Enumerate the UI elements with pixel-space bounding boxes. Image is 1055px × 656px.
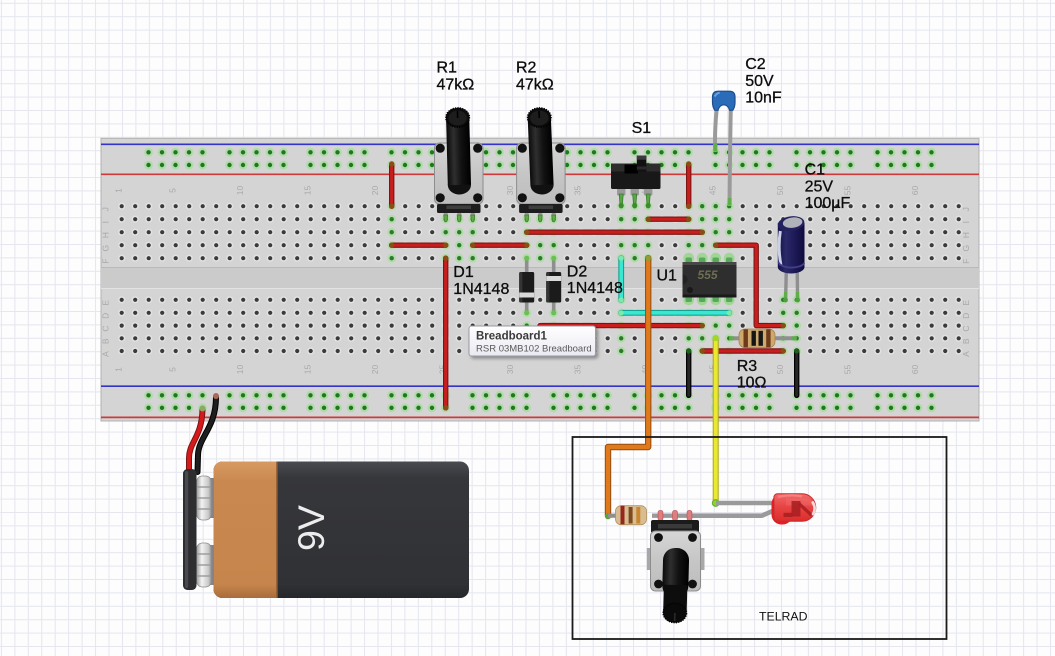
wire red 21G to 25G [392, 242, 446, 247]
svg-text:S1: S1 [632, 120, 652, 137]
svg-text:5: 5 [168, 188, 178, 193]
svg-text:H: H [101, 232, 111, 238]
svg-text:D: D [961, 313, 971, 319]
svg-text:C2: C2 [745, 56, 766, 73]
svg-text:55: 55 [843, 186, 853, 196]
battery BT1 9V [183, 462, 469, 599]
label D2 value [567, 263, 623, 297]
wire black 43A to ground rail [686, 351, 691, 395]
svg-text:B: B [961, 338, 971, 344]
potentiometer in box [647, 511, 705, 624]
svg-text:50: 50 [775, 186, 785, 196]
potentiometer R1 47k [435, 108, 484, 222]
breadboard Breadboard1 RSR 03MB102 [101, 138, 979, 421]
wire orange 40F to box node [605, 256, 651, 520]
svg-text:I: I [101, 221, 111, 223]
svg-text:100µF: 100µF [805, 195, 851, 212]
label R3 value [737, 358, 767, 392]
svg-text:D1: D1 [453, 264, 474, 281]
wire red V+ rail to node 21J [389, 165, 394, 206]
svg-text:H: H [961, 232, 971, 238]
wire yellow 45B to box node [712, 335, 719, 506]
potentiometer R2 47k [517, 107, 566, 222]
subcircuit box TELRAD [573, 437, 947, 639]
svg-text:10: 10 [235, 365, 245, 375]
svg-text:20: 20 [370, 365, 380, 375]
svg-text:E: E [101, 300, 111, 306]
wire black battery negative lead [198, 393, 220, 472]
wire red 25F to ground rail [443, 258, 448, 408]
wire red 27G to 31G [473, 242, 527, 247]
op-amp/timer U1 555 DIP-8 [683, 253, 737, 305]
svg-text:F: F [101, 259, 111, 264]
svg-text:A: A [961, 351, 971, 357]
svg-text:555: 555 [697, 268, 717, 282]
svg-text:20: 20 [370, 186, 380, 196]
wire red V+ rail to node 43J [686, 165, 691, 206]
label D1 value [453, 264, 509, 298]
svg-text:C: C [961, 326, 971, 332]
svg-text:60: 60 [910, 186, 920, 196]
wire gray LED anode lead [716, 501, 775, 506]
wire black 51A to ground rail [794, 351, 799, 395]
label C1 value [805, 162, 851, 212]
wire red 31H to 44H [527, 229, 703, 234]
wire gray LED cathode lead [690, 510, 776, 516]
svg-text:1N4148: 1N4148 [567, 280, 623, 297]
wire red 32C to 44C [540, 323, 702, 328]
svg-text:1: 1 [114, 367, 124, 372]
svg-text:50: 50 [775, 365, 785, 375]
svg-text:10Ω: 10Ω [737, 375, 767, 392]
svg-text:D2: D2 [567, 263, 588, 280]
svg-text:1: 1 [114, 188, 124, 193]
svg-text:G: G [101, 245, 111, 252]
svg-text:25V: 25V [805, 178, 834, 195]
tooltip Breadboard1 [469, 326, 596, 356]
svg-text:R2: R2 [516, 60, 537, 77]
LED red [772, 494, 816, 525]
svg-text:47kΩ: 47kΩ [516, 76, 554, 93]
resistor R4 in box [608, 506, 762, 525]
svg-text:D: D [101, 313, 111, 319]
svg-text:47kΩ: 47kΩ [437, 76, 475, 93]
svg-text:RSR 03MB102 Breadboard: RSR 03MB102 Breadboard [476, 344, 592, 355]
svg-text:30: 30 [505, 365, 515, 375]
svg-text:30: 30 [505, 186, 515, 196]
svg-text:I: I [961, 221, 971, 223]
svg-text:35: 35 [573, 365, 583, 375]
resistor R3 10ohm [729, 329, 797, 348]
wire red 40I to 43I [648, 216, 689, 221]
wire red battery positive lead [189, 406, 206, 472]
svg-text:B: B [101, 338, 111, 344]
svg-text:U1: U1 [657, 268, 678, 285]
svg-text:F: F [961, 259, 971, 264]
svg-text:J: J [961, 207, 971, 211]
capacitor C1 electrolytic 100uF [777, 215, 805, 303]
svg-text:50V: 50V [745, 73, 774, 90]
svg-text:A: A [101, 351, 111, 357]
wire red 45G to 50C [716, 245, 784, 325]
svg-text:1N4148: 1N4148 [453, 281, 509, 298]
svg-text:Breadboard1: Breadboard1 [476, 331, 548, 343]
svg-text:15: 15 [303, 365, 313, 375]
label C2 value [745, 56, 782, 107]
svg-text:E: E [961, 300, 971, 306]
wire cyan 38F to 38E [618, 258, 624, 300]
svg-text:55: 55 [843, 365, 853, 375]
svg-text:45: 45 [708, 186, 718, 196]
svg-text:9V: 9V [290, 505, 332, 551]
svg-text:10nF: 10nF [745, 90, 782, 107]
svg-text:TELRAD: TELRAD [759, 610, 808, 624]
label R1 value [437, 60, 475, 94]
label R2 value [516, 60, 554, 94]
wire red 44A to 50A [702, 348, 783, 353]
label U1 [657, 268, 678, 285]
wire cyan 38D to 46D [621, 310, 729, 316]
svg-text:10: 10 [235, 186, 245, 196]
svg-text:G: G [961, 245, 971, 252]
svg-text:R3: R3 [737, 358, 758, 375]
diode D2 1N4148 [546, 256, 561, 316]
svg-text:15: 15 [303, 186, 313, 196]
svg-text:C1: C1 [805, 162, 826, 179]
capacitor C2 ceramic 10nF [713, 91, 736, 206]
label S1 [632, 120, 652, 137]
svg-text:5: 5 [168, 367, 178, 372]
svg-text:60: 60 [910, 365, 920, 375]
diode D1 1N4148 [519, 256, 534, 316]
svg-text:C: C [101, 326, 111, 332]
svg-text:J: J [101, 207, 111, 211]
switch S1 slide [611, 156, 661, 209]
svg-text:R1: R1 [437, 60, 458, 77]
svg-text:35: 35 [573, 186, 583, 196]
